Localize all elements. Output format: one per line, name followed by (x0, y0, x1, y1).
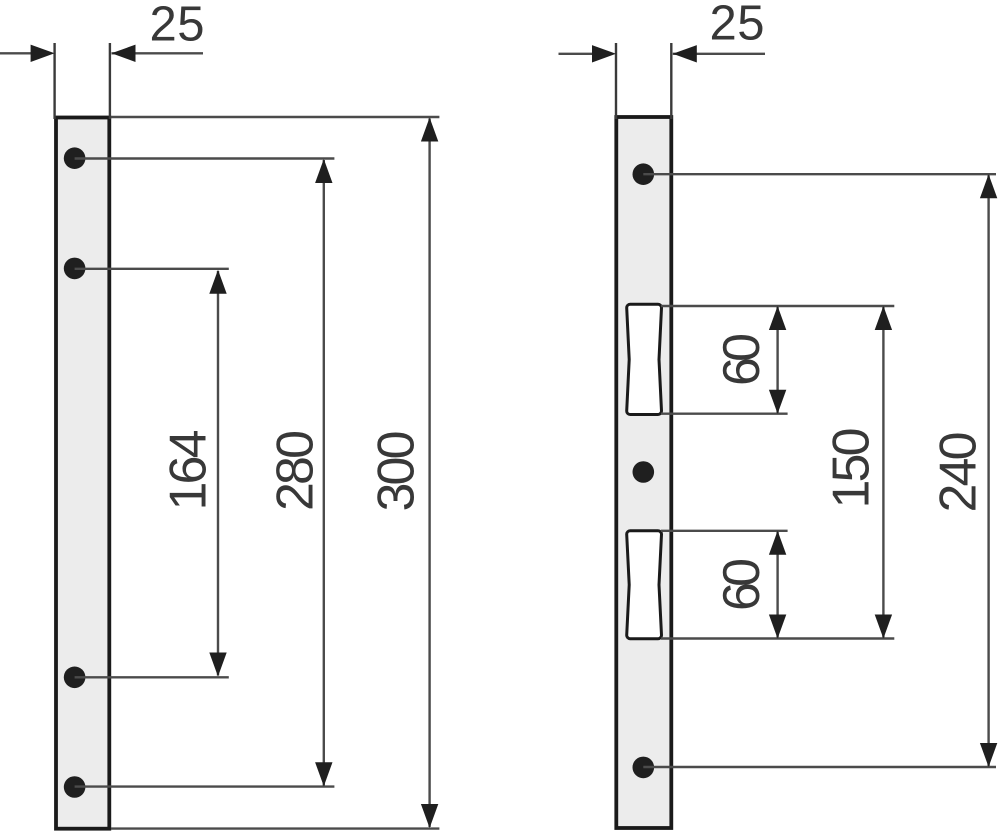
dimension line 164 (vertical) (209, 270, 226, 677)
hole H2 (left plate, second) (64, 258, 86, 280)
dimension line 60 (lower slot) (769, 531, 786, 639)
dimension line 150 (875, 306, 892, 639)
extension line slot S1 bottom (661, 413, 788, 415)
leader line from H1 to 280 dimension (75, 157, 335, 159)
extension line slot S2 top (661, 530, 788, 532)
dimension line 240 (980, 174, 997, 767)
plate body (right view) (616, 117, 671, 828)
latch slot S2 (lower) (627, 531, 662, 639)
svg-text:60: 60 (713, 333, 771, 386)
dimension line 280 (vertical) (315, 159, 332, 786)
leader line from H4 to 280 dimension (75, 785, 335, 787)
svg-text:280: 280 (267, 430, 325, 511)
hole H5 (right plate, top) (633, 163, 655, 185)
extension line slot S2 bottom (661, 637, 894, 639)
plate body (left view) (56, 118, 109, 829)
dimension line 60 (upper slot) (769, 306, 786, 414)
width dimension 25 (right view): left arrow with tail (559, 45, 617, 62)
leader line from H2 to 164 dimension (75, 268, 229, 270)
hole H7 (right plate, bottom) (633, 757, 655, 779)
svg-text:164: 164 (160, 430, 218, 511)
svg-text:25: 25 (710, 0, 765, 51)
hole H4 (left plate, bottom) (64, 776, 86, 798)
width dimension 25 (left view): left arrow with tail (0, 45, 55, 62)
leader line from H5 to 240 dimension (643, 173, 996, 175)
width dimension 25 (right view): extension lines (615, 43, 617, 119)
dimension line 300 (vertical) (421, 118, 438, 829)
width dimension 25 (left view): extension lines (53, 43, 55, 119)
latch slot S1 (upper) (627, 304, 662, 414)
svg-text:150: 150 (823, 428, 881, 509)
svg-text:240: 240 (930, 432, 988, 513)
width dimension 25 (left view): right arrow with tail (112, 45, 204, 62)
leader line from H3 to 164 dimension (75, 676, 229, 678)
extension line slot S1 top (661, 305, 894, 307)
hole H1 (left plate, top) (64, 147, 86, 169)
svg-text:25: 25 (150, 0, 205, 52)
hole H6 (right plate, middle) (633, 461, 655, 483)
width dimension 25 (right view): right arrow with tail (673, 45, 765, 62)
extension line from plate bottom to 300 dimension (111, 827, 439, 829)
leader line from H7 to 240 dimension (643, 766, 996, 768)
extension line from plate top to 300 dimension (110, 116, 439, 118)
hole H3 (left plate, third) (64, 667, 86, 689)
svg-text:60: 60 (713, 558, 771, 611)
svg-text:300: 300 (368, 431, 426, 512)
